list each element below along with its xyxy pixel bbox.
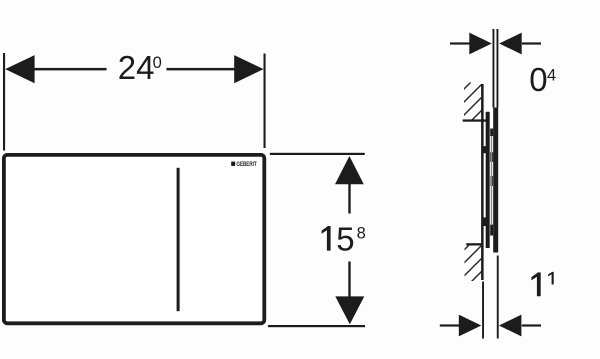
finished wall surface line (upper left thin) — [493, 29, 495, 108]
mounting clip upper — [482, 146, 486, 153]
connector rail (light) — [491, 136, 492, 225]
plate face line (upper right thin) — [497, 29, 499, 108]
dimension line left segment — [440, 324, 459, 326]
svg-text:5: 5 — [336, 221, 354, 258]
wall hatching upper — [446, 60, 496, 146]
label 1 (custom helvetica-style) — [531, 272, 540, 296]
connector piece 4 — [490, 225, 493, 236]
arrowhead pointing left — [499, 33, 522, 55]
extension line top — [270, 153, 365, 155]
wall opening upper edge — [463, 119, 488, 121]
arrowhead up — [335, 156, 364, 184]
label superscript 1 (custom helvetica-style) — [548, 272, 554, 285]
label 15 : custom helvetica-style 1 + font 5 — [322, 226, 331, 251]
extension line right — [264, 54, 266, 149]
svg-text:8: 8 — [357, 224, 366, 242]
wall opening lower edge — [466, 243, 482, 245]
wall hatching lower — [446, 218, 496, 320]
arrowhead left — [5, 55, 34, 83]
rough wall face line (lower left thin) — [482, 282, 484, 339]
dimension line right segment — [522, 42, 541, 44]
plate front view (rounded rectangle) — [4, 155, 264, 323]
svg-text:4: 4 — [547, 67, 556, 85]
connector piece 3 — [490, 176, 493, 186]
wall face line (thick) — [481, 84, 484, 280]
extension line bottom — [268, 325, 365, 327]
arrowhead pointing right — [469, 33, 492, 55]
svg-text:GEBERIT: GEBERIT — [236, 161, 256, 168]
svg-text:24: 24 — [118, 49, 155, 86]
dimension line upper segment — [348, 183, 350, 214]
dimension line right segment — [167, 68, 235, 71]
mounting frame bar — [486, 112, 490, 248]
dimension line right segment — [522, 324, 541, 326]
arrowhead right — [234, 55, 263, 83]
plate face line (lower right thin) — [497, 256, 499, 339]
mounting clip lower — [482, 217, 486, 226]
svg-text:0: 0 — [153, 54, 162, 72]
dimension line left segment — [33, 68, 107, 71]
arrowhead down — [335, 296, 364, 324]
extension line left — [3, 53, 5, 151]
dimension line lower segment — [348, 262, 350, 298]
arrowhead pointing left — [499, 315, 522, 337]
connector piece 1 — [490, 129, 493, 137]
plate split line — [177, 168, 180, 311]
plate side profile bar — [493, 108, 498, 253]
connector piece 2 — [490, 152, 493, 162]
arrowhead pointing right — [459, 315, 482, 337]
geberit logo square — [231, 162, 235, 166]
dimension line left segment — [450, 42, 470, 44]
svg-text:0: 0 — [529, 61, 547, 98]
